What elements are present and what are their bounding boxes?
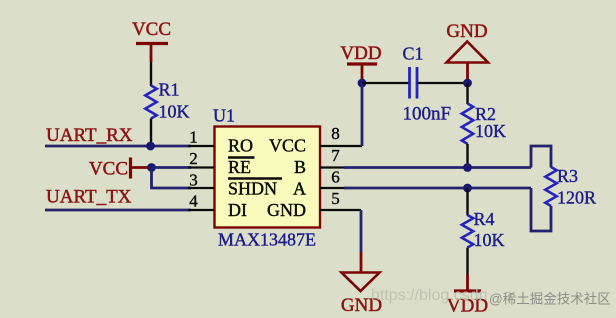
- pin 6 A: [320, 168, 346, 189]
- wire pin2: [152, 166, 192, 169]
- wire VDD to C1: [362, 82, 409, 84]
- svg-text:6: 6: [331, 168, 340, 187]
- wire C1 to GND node: [418, 82, 468, 84]
- svg-text:RE: RE: [228, 157, 251, 177]
- svg-text:R1: R1: [159, 80, 180, 100]
- svg-text:10K: 10K: [159, 102, 190, 122]
- svg-text:B: B: [294, 157, 306, 177]
- svg-text:A: A: [293, 179, 306, 199]
- svg-text:MAX13487E: MAX13487E: [218, 230, 316, 250]
- wire B to R3: [531, 146, 551, 168]
- junction at R1 / pin1: [146, 142, 155, 151]
- resistor R3: [545, 166, 596, 208]
- wire VCC to pin3: [152, 168, 192, 189]
- power port VDD (bottom): [447, 275, 488, 317]
- power port VCC (left): [89, 158, 150, 180]
- svg-text:@稀土掘金技术社区: @稀土掘金技术社区: [489, 292, 611, 307]
- power port VCC (top): [132, 19, 171, 62]
- svg-text:https://blog.csdn: https://blog.csdn: [371, 287, 488, 304]
- pin 8 VCC: [320, 124, 362, 146]
- svg-text:2: 2: [189, 149, 198, 168]
- resistor R2: [462, 83, 506, 168]
- power port GND (top): [446, 21, 488, 80]
- junction R4 / A: [463, 184, 472, 193]
- svg-text:DI: DI: [228, 200, 247, 220]
- pin name RE with overbar: [228, 157, 255, 177]
- svg-text:10K: 10K: [474, 230, 505, 250]
- pin 1 RO: [188, 128, 214, 147]
- power port VDD (top): [340, 43, 381, 80]
- wire pin5 to GND: [360, 210, 363, 252]
- svg-text:C1: C1: [403, 44, 424, 64]
- junction GND / C1 / R2: [463, 79, 472, 88]
- op-amp body: ic U1 MAX13487E: [215, 127, 321, 228]
- pin 4 DI: [188, 192, 214, 211]
- svg-text:3: 3: [189, 171, 198, 190]
- wire UART_RX: [45, 145, 191, 148]
- svg-text:RO: RO: [228, 136, 253, 156]
- svg-text:5: 5: [331, 189, 340, 208]
- svg-text:4: 4: [189, 192, 198, 211]
- junction R2 / B: [463, 163, 472, 172]
- svg-text:UART_RX: UART_RX: [46, 125, 133, 146]
- svg-text:R4: R4: [474, 209, 495, 229]
- svg-text:U1: U1: [213, 106, 235, 126]
- junction at VCC / pin2: [147, 163, 156, 172]
- resistor R4: [462, 188, 505, 275]
- svg-text:VDD: VDD: [340, 43, 381, 64]
- pin 5: [320, 189, 361, 210]
- svg-text:100nF: 100nF: [403, 104, 452, 125]
- capacitor C1: [403, 44, 452, 125]
- power port GND (bottom): [341, 252, 382, 316]
- svg-text:VCC: VCC: [269, 136, 306, 156]
- wire net B: [344, 166, 531, 169]
- svg-text:VCC: VCC: [132, 19, 171, 40]
- resistor R1: [145, 62, 189, 146]
- pin 7 B: [320, 146, 346, 168]
- svg-text:7: 7: [331, 146, 340, 165]
- svg-text:GND: GND: [267, 200, 306, 220]
- pin name SHDN with overbar: [228, 179, 282, 199]
- wire VDD to pin8: [361, 83, 364, 146]
- svg-text:120R: 120R: [557, 188, 596, 208]
- svg-text:UART_TX: UART_TX: [46, 187, 132, 208]
- svg-text:8: 8: [331, 124, 340, 143]
- svg-text:R3: R3: [557, 166, 578, 186]
- pin 2 RE: [188, 149, 214, 168]
- pin 3 SHDN: [188, 171, 214, 190]
- junction VDD node: [358, 79, 367, 88]
- wire R3 to A: [531, 188, 551, 231]
- wire net A: [344, 187, 531, 190]
- svg-text:GND: GND: [446, 21, 487, 42]
- svg-text:10K: 10K: [475, 121, 506, 141]
- svg-text:VCC: VCC: [89, 159, 128, 180]
- svg-text:SHDN: SHDN: [228, 179, 277, 199]
- svg-text:1: 1: [189, 128, 198, 147]
- wire UART_TX: [45, 209, 191, 212]
